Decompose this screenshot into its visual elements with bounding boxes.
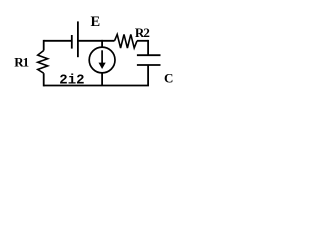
wire right vertical down to capacitor [147, 40, 149, 55]
current source circle [89, 47, 115, 73]
wire R2 to top-right corner [137, 40, 148, 42]
wire top-left horizontal [44, 40, 72, 42]
wire stub bottom of current source [101, 73, 103, 86]
capacitor C bottom plate [137, 64, 161, 66]
current source arrowhead [99, 63, 106, 69]
wire left vertical top segment [43, 40, 45, 51]
svg-text:R2: R2 [135, 25, 149, 40]
svg-text:2i2: 2i2 [59, 73, 84, 89]
battery E tall plate [77, 21, 79, 57]
wire stub top of current source [101, 40, 103, 47]
resistor R2 zigzag [115, 34, 138, 48]
battery E short plate [71, 35, 73, 49]
svg-text:R1: R1 [14, 54, 28, 69]
svg-text:E: E [91, 14, 101, 30]
wire left vertical bottom segment [43, 73, 45, 86]
capacitor C top plate [137, 54, 161, 56]
wire capacitor down to bottom-right corner [147, 65, 149, 86]
current source arrow shaft [101, 50, 103, 64]
wire battery to resistor R2 [78, 40, 115, 42]
wire bottom horizontal [44, 85, 149, 87]
resistor R1 zigzag [38, 51, 48, 74]
svg-text:C: C [164, 70, 173, 85]
